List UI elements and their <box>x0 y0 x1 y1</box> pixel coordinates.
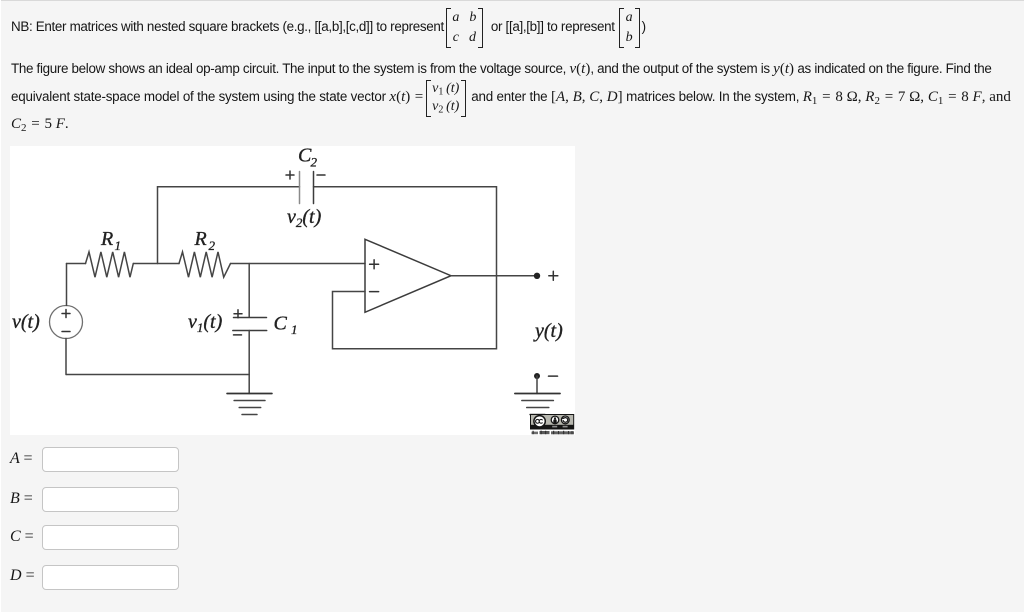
minus lower terminal <box>549 375 558 377</box>
plus v(t) <box>62 310 70 318</box>
capacitor C1 <box>234 317 267 319</box>
paragraph line 2 <box>11 89 1011 106</box>
resistor R1 <box>86 252 134 277</box>
wire: between R1 and R2 <box>133 263 179 265</box>
answer row D <box>10 567 35 585</box>
node: output terminal <box>534 273 540 279</box>
wire: source top to main <box>66 264 68 306</box>
paragraph line 1 <box>11 61 992 78</box>
minus C1 <box>234 334 242 336</box>
resistor R2 <box>179 252 231 277</box>
voltage source v(t) <box>50 306 83 339</box>
svg-text:1: 1 <box>291 322 298 337</box>
wire: top feedback left segment <box>158 187 300 264</box>
svg-text:2: 2 <box>311 155 318 170</box>
wire: bottom return <box>67 374 250 376</box>
wire: source bottom <box>65 338 67 374</box>
answer row C <box>10 528 34 546</box>
answer row A <box>10 450 33 468</box>
node: lower terminal <box>534 373 540 379</box>
wire: C1 to bottom <box>248 331 250 375</box>
paragraph line 3 <box>11 116 69 133</box>
pin: inverting input - <box>370 291 379 293</box>
wire: op-amp output <box>451 275 537 277</box>
svg-text:v(t): v(t) <box>12 311 40 333</box>
answer row B <box>10 490 33 508</box>
ground middle <box>248 375 250 394</box>
svg-text:v1(t): v1(t) <box>188 311 223 335</box>
pin: non-inverting input + <box>370 260 379 269</box>
wire: feedback to inverting input <box>333 276 497 349</box>
svg-text:C: C <box>274 313 288 335</box>
instruction line 1 <box>11 4 646 50</box>
wire: R2 to op-amp + input <box>231 263 366 265</box>
wire: main left <box>67 263 86 265</box>
plus C2 <box>286 171 294 179</box>
circuit figure <box>10 146 575 435</box>
capacitor C2 <box>299 172 301 204</box>
wire: top feedback right segment <box>314 187 497 276</box>
badge caption <box>532 431 575 435</box>
svg-text:R: R <box>100 228 113 250</box>
CC license badge <box>531 415 574 430</box>
op-amp U1 <box>365 239 451 312</box>
svg-text:y(t): y(t) <box>533 320 563 342</box>
svg-text:R: R <box>194 228 207 250</box>
node: junction to C1 <box>248 264 250 318</box>
svg-text:v2(t): v2(t) <box>287 206 322 230</box>
plus C1 <box>234 310 242 318</box>
svg-text:1: 1 <box>115 238 122 253</box>
wire: lower terminal to ground <box>536 376 538 394</box>
minus v(t) <box>62 331 70 333</box>
plus output terminal <box>549 271 558 280</box>
svg-text:2: 2 <box>209 238 216 253</box>
minus C2 <box>317 174 325 176</box>
ground right <box>515 393 560 395</box>
